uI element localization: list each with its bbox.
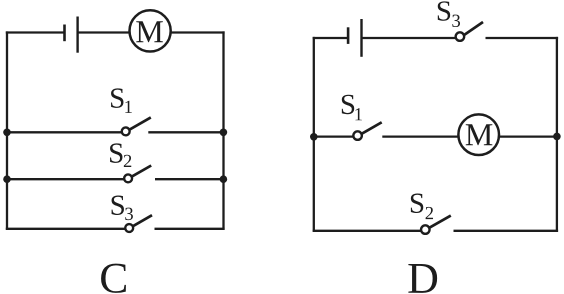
switch S2 blade (D): [429, 216, 451, 228]
switch S2 blade (C): [132, 166, 151, 177]
switch S1 pivot circle (C): [122, 127, 130, 135]
wire: switch S2 to D bottom-right: [454, 230, 559, 232]
junction dot: C branch 1 right: [220, 129, 228, 137]
label S3 (D) - subscript 3: [452, 15, 460, 27]
label S2 (D) - letter S: [411, 194, 423, 213]
wire: motor to C top-right: [171, 31, 225, 33]
switch S3 pivot circle (D): [456, 32, 465, 41]
wire: C branch 2 right segment: [155, 178, 225, 180]
wire: D left vertical: [313, 37, 315, 232]
battery cell C - long plate (positive): [76, 17, 78, 53]
label S1 (C) - subscript 1: [125, 101, 132, 113]
label S2 (D) - subscript 2: [426, 207, 433, 219]
switch S3 blade (D): [464, 22, 483, 35]
label S2 (C) - letter S: [110, 143, 122, 162]
label S2 (C) - subscript 2: [124, 155, 131, 167]
motor letter M (D): [466, 124, 493, 145]
junction dot: C branch 1 left: [3, 129, 11, 137]
wire: C bottom-left to switch S3: [6, 228, 125, 230]
wire: D bottom-left to switch S2: [313, 230, 421, 232]
battery cell D - short plate (negative): [347, 27, 350, 44]
label S3 (C) - letter S: [112, 196, 124, 215]
wire: switch S3 to C bottom-right: [155, 228, 225, 230]
label S1 (C) - letter S: [111, 88, 123, 107]
battery cell C - short plate (negative): [63, 25, 66, 42]
label S1 (D) - letter S: [342, 95, 354, 114]
motor circle (D): [458, 114, 499, 155]
junction dot: C branch 2 left: [3, 175, 11, 183]
wire: D right vertical: [556, 37, 558, 232]
junction dot: D middle left: [310, 133, 318, 141]
battery cell D - long plate (positive): [360, 19, 362, 57]
switch S3 blade (C): [133, 215, 152, 226]
switch S1 blade (C): [129, 117, 150, 129]
junction dot: C branch 2 right: [220, 175, 228, 183]
switch S1 pivot circle (D): [353, 131, 362, 140]
label S3 (D) - letter S: [438, 1, 450, 20]
wire: D top-left to battery: [313, 37, 348, 39]
wire: C left vertical: [6, 31, 8, 229]
wire: switch S3 to D top-right: [486, 37, 559, 39]
wire: C branch 2 left segment: [6, 178, 124, 180]
label S3 (C) - subscript 3: [125, 208, 133, 220]
wire: battery to switch S3 (D): [362, 37, 456, 39]
wire: C branch 1 right segment: [148, 131, 224, 133]
wire: D middle branch left segment: [314, 135, 353, 137]
switch S2 pivot circle (D): [421, 225, 430, 234]
switch S2 pivot circle (C): [124, 174, 132, 182]
label S1 (D) - subscript 1: [355, 108, 362, 120]
wire: switch S1 to motor (D): [382, 135, 458, 137]
wire: battery to motor (C): [78, 31, 130, 33]
label C (circuit name): [101, 264, 126, 293]
switch S3 pivot circle (C): [125, 224, 133, 232]
switch S1 blade (D): [362, 122, 382, 134]
motor letter M (C): [136, 21, 163, 42]
wire: C top-left to battery: [6, 31, 64, 33]
motor circle (C): [130, 10, 171, 51]
junction dot: D middle right: [553, 133, 561, 141]
label D (circuit name): [408, 264, 437, 293]
wire: motor to D right vertical: [499, 135, 558, 137]
wire: C branch 1 left segment: [6, 131, 122, 133]
wire: C right vertical: [222, 31, 224, 229]
